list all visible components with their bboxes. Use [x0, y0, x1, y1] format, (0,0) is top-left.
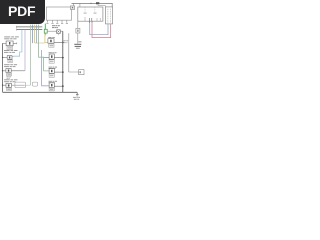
- wire blue stub into F2: [44, 57, 49, 59]
- element in K3: [8, 70, 10, 72]
- wire ground rail branch vertical: [69, 33, 79, 72]
- wire left rail to K4: [3, 84, 6, 86]
- value box under K2: [8, 60, 13, 63]
- element in K4: [8, 84, 9, 86]
- pin 5 of T26: [66, 20, 68, 22]
- relay K2 box: [7, 56, 12, 60]
- tick below SW0: [57, 33, 59, 35]
- value text F4: [50, 89, 54, 90]
- relay K3 box: [6, 69, 11, 73]
- PDF badge: [0, 0, 45, 24]
- left rail junction row4: [2, 85, 3, 86]
- X contact in SW0: [57, 30, 60, 32]
- label above SW0: [52, 25, 60, 28]
- relay K2 label text: [4, 50, 18, 53]
- left rail: [2, 43, 4, 92]
- wire K3 to F3: [11, 70, 25, 72]
- battery label: [78, 41, 81, 42]
- battery A plate 2: [75, 45, 81, 47]
- fuse F1 box (row1 col2): [48, 39, 54, 44]
- fuse F4 box: [49, 83, 54, 88]
- ticks text below K3: [7, 76, 12, 78]
- mid bus line 30b: [17, 29, 43, 31]
- wire K1 to F1: [13, 42, 17, 44]
- bus 30b end tick: [16, 29, 18, 31]
- switch SW0 box with X: [57, 30, 61, 34]
- value box under K3: [7, 73, 12, 76]
- value box under K4: [7, 88, 12, 91]
- wire U1 left pin down to fuse S5: [77, 21, 79, 28]
- wire left rail to K3: [3, 70, 6, 72]
- wire bus sub-branch to block T10: [98, 6, 106, 7]
- fuse F3 label: [49, 67, 58, 69]
- F1 label: [48, 37, 55, 38]
- relay K3 label text: [4, 64, 17, 67]
- pin line a inside U1: [84, 7, 86, 12]
- connector outline row4: [15, 82, 26, 87]
- wire yellow stub into F1: [45, 33, 48, 42]
- element in F2: [51, 55, 53, 58]
- wire lavender drop to K3: [24, 30, 26, 71]
- pin tick d inside U1: [89, 18, 91, 21]
- wire F3 to right rail: [54, 71, 63, 73]
- connector block T26 (top, partly under badge): [46, 7, 71, 20]
- rail junction row2: [62, 57, 64, 59]
- net label on bus: [96, 2, 99, 4]
- element in fuse S5: [77, 30, 78, 32]
- pin number labels under T26: [46, 23, 68, 24]
- wire light blue drop to K2: [13, 30, 22, 56]
- wire yellow link row1: [35, 42, 45, 44]
- wire yellow drop to row 1: [34, 25, 36, 43]
- value text F3: [50, 75, 54, 77]
- pin in connector G1: [80, 71, 81, 73]
- fuse F4 label: [49, 81, 58, 83]
- wire blue drop to row 2: [32, 25, 34, 43]
- wire K4 to F4: [11, 84, 24, 86]
- pin column 1 of T10: [107, 9, 109, 23]
- tick below S1: [45, 33, 47, 35]
- element in K1: [9, 42, 10, 45]
- fuse F2 label: [49, 52, 57, 53]
- value text K2: [9, 61, 12, 62]
- relay K4 label text: [4, 79, 17, 82]
- control unit U1 (big block): [78, 7, 103, 21]
- bottom rail to ground: [3, 91, 78, 93]
- bus 30a end tick: [16, 26, 18, 28]
- wire S1 to switch SW0: [47, 30, 56, 32]
- pin tick f inside U1: [96, 18, 98, 21]
- fuse F3 box: [49, 69, 54, 74]
- wire pink loop U1 to T10: [92, 23, 111, 37]
- pin line b inside U1: [94, 7, 96, 12]
- value text K4: [7, 89, 11, 90]
- pin tick e inside U1: [91, 18, 93, 21]
- wire green staircase to row 3: [39, 25, 49, 71]
- value box under F3: [49, 74, 54, 77]
- wire F4 to right rail: [54, 85, 63, 87]
- pin label text in U1: [84, 13, 97, 14]
- fuse S5 box: [76, 28, 80, 33]
- value text F2: [50, 61, 54, 63]
- wire U1 pin stub pink: [91, 21, 93, 23]
- wire left rail to K2: [3, 56, 8, 58]
- pin 4 of T26: [61, 20, 63, 22]
- pin 1 of T26: [46, 20, 48, 22]
- wire bus branch to fuse box B: [73, 3, 75, 6]
- ground bar 1: [76, 94, 79, 96]
- battery A plate 3: [76, 47, 80, 49]
- right rail (connecting line): [62, 31, 64, 92]
- rail junction row1: [62, 42, 64, 44]
- wire K2 to F2: [12, 55, 13, 57]
- value box under F1: [49, 44, 54, 47]
- wire F1 to right rail: [54, 41, 63, 44]
- relay K1 label text: [4, 36, 19, 39]
- element in F3: [51, 70, 53, 72]
- junction on bus: [90, 3, 91, 4]
- value box under F4: [49, 88, 54, 91]
- pin 3 of T26: [56, 20, 58, 22]
- relay K1 box: [6, 41, 13, 46]
- pin 2 of T26: [51, 20, 53, 22]
- left rail junction row2: [2, 57, 3, 58]
- relay K4 box: [6, 83, 11, 87]
- value box under F2: [49, 60, 54, 63]
- ground stub: [76, 92, 78, 94]
- fuse F2 box: [49, 54, 54, 59]
- wire F2 to right rail: [54, 57, 63, 59]
- value text F1: [50, 45, 54, 46]
- wire S5 to battery: [77, 33, 79, 44]
- value text K3: [7, 74, 11, 75]
- wire blue2 drop to row 1: [36, 25, 38, 43]
- rail junction row4: [62, 85, 64, 87]
- wire pale blue drop to K4: [30, 25, 32, 86]
- wire left rail to K1: [3, 42, 7, 44]
- mid bus line 30a: [17, 26, 43, 28]
- wire lavender2 to row 4: [42, 50, 49, 86]
- ground label: [73, 97, 80, 100]
- pin tick c inside U1: [84, 17, 86, 21]
- element in F4: [51, 84, 53, 86]
- wire U1 pin stub blue: [89, 21, 91, 23]
- element in F1: [50, 40, 52, 43]
- element in K2: [9, 56, 10, 58]
- rail junction row3: [62, 71, 64, 73]
- battery A plate 1: [74, 43, 81, 45]
- value box under K1: [7, 46, 13, 49]
- wire blue loop U1 to T10: [90, 23, 108, 34]
- connector outline2 row4: [32, 82, 37, 86]
- wire green supply from badge to fuse S1: [44, 24, 46, 30]
- connector G1 box: [79, 70, 84, 75]
- node label text left of battery: [63, 40, 68, 43]
- ground bar 2: [76, 95, 78, 97]
- contact dot in fuse box B: [72, 7, 73, 8]
- fuse S1 (green box): [44, 29, 47, 33]
- fuse box B: [70, 6, 74, 9]
- left rail junction row3: [2, 70, 3, 71]
- pin column 2 of T10: [109, 9, 111, 23]
- wire SW0 to right rail: [60, 30, 63, 32]
- connector block T10 (narrow tall): [105, 7, 112, 24]
- wire top supply bus 30: [72, 3, 113, 7]
- pin tick g inside U1: [99, 18, 101, 21]
- wire bus drop to U1 pin: [79, 3, 81, 7]
- value text K1: [8, 47, 12, 48]
